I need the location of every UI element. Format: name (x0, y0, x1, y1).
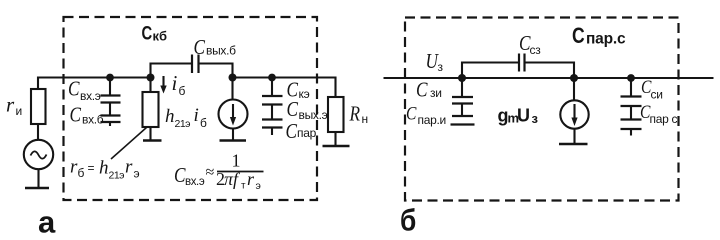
svg-text:С: С (142, 23, 153, 44)
svg-text:C: C (287, 99, 299, 122)
svg-text:си: си (651, 88, 663, 102)
svg-text:з: з (438, 60, 444, 74)
svg-text:зи: зи (430, 86, 442, 100)
svg-text:кб: кб (153, 29, 168, 44)
svg-text:r: r (125, 157, 133, 178)
svg-text:э: э (134, 167, 140, 181)
svg-text:=: = (88, 161, 95, 175)
svg-text:н: н (362, 112, 368, 126)
svg-text:21э: 21э (175, 118, 191, 130)
svg-text:вых.э: вых.э (299, 108, 328, 122)
svg-text:21э: 21э (109, 170, 125, 182)
svg-text:R: R (349, 103, 361, 126)
svg-text:т: т (241, 180, 246, 191)
svg-text:вх.э: вх.э (185, 176, 205, 188)
svg-text:C: C (416, 79, 428, 102)
svg-text:э: э (256, 180, 261, 192)
svg-text:r: r (6, 93, 15, 117)
svg-text:пар с: пар с (650, 112, 678, 126)
svg-text:i: i (194, 105, 199, 126)
svg-text:C: C (286, 121, 298, 144)
svg-text:б: б (179, 84, 186, 98)
svg-text:з: з (532, 111, 539, 126)
svg-text:б: б (78, 166, 85, 180)
svg-text:вх.э: вх.э (80, 89, 101, 103)
svg-text:сз: сз (530, 43, 542, 57)
svg-text:C: C (174, 165, 186, 188)
svg-text:вых.б: вых.б (206, 44, 236, 58)
svg-text:вх.б: вх.б (82, 112, 104, 126)
svg-text:C: C (406, 103, 417, 124)
svg-text:пар.с: пар.с (586, 31, 626, 48)
svg-text:U: U (517, 106, 530, 126)
svg-text:а: а (38, 205, 56, 240)
svg-text:С: С (572, 24, 585, 49)
svg-text:≈: ≈ (206, 164, 215, 181)
svg-text:пар: пар (297, 126, 317, 140)
svg-text:C: C (194, 37, 206, 60)
svg-text:1: 1 (232, 151, 241, 171)
svg-text:кэ: кэ (299, 87, 310, 101)
svg-text:б: б (200, 116, 207, 130)
svg-text:i: i (172, 71, 178, 95)
svg-text:и: и (16, 104, 22, 118)
svg-text:h: h (99, 158, 109, 179)
svg-text:h: h (165, 106, 175, 127)
svg-text:C: C (70, 104, 82, 127)
svg-text:r: r (247, 169, 255, 189)
svg-text:б: б (400, 204, 416, 238)
svg-text:C: C (68, 78, 80, 101)
svg-text:пар.и: пар.и (418, 113, 446, 127)
